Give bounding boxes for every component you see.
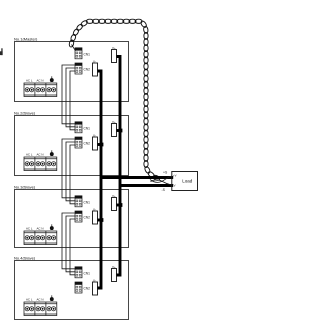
svg-text:AC L: AC L xyxy=(26,79,33,83)
connector CN1 unit 2 xyxy=(75,122,90,133)
connector CN2 unit 3 xyxy=(75,211,90,222)
connector CN1 unit 1 xyxy=(75,48,90,59)
power supply unit No.4(Slave) enclosure xyxy=(15,261,129,320)
output terminal V+ unit 1 xyxy=(112,46,117,63)
PE ground symbol unit 2 xyxy=(50,150,53,155)
svg-text:CN1: CN1 xyxy=(84,52,91,56)
twisted-pair sense cable (chain links) from CN1 unit1 to load xyxy=(69,19,161,181)
junction dot V+ unit 3 xyxy=(119,203,123,207)
AC input terminal block unit 3 xyxy=(24,231,57,245)
power supply unit No.3(Slave) enclosure xyxy=(15,190,129,248)
daisy-chain wires CN2 unit 3 to CN1 unit 4 xyxy=(62,213,75,275)
svg-text:AC L: AC L xyxy=(26,298,33,302)
V+ stub unit 3 xyxy=(117,204,121,207)
AC input terminal block unit 2 xyxy=(24,157,57,171)
svg-text:CN1: CN1 xyxy=(84,200,91,204)
svg-text:CN2: CN2 xyxy=(84,287,91,291)
svg-text:AC N: AC N xyxy=(37,227,44,231)
svg-text:CN2: CN2 xyxy=(84,142,91,146)
output terminal V- unit 2 xyxy=(93,133,98,150)
connector CN2 unit 4 xyxy=(75,282,90,293)
connector CN2 unit 1 xyxy=(75,63,90,74)
V- stub unit 2 xyxy=(98,143,102,146)
svg-text:AC N: AC N xyxy=(37,298,44,302)
svg-text:No.1(Master): No.1(Master) xyxy=(14,36,38,41)
connector CN1 unit 3 xyxy=(75,196,90,207)
junction dot V+ unit 2 xyxy=(119,129,123,133)
svg-text:CN2: CN2 xyxy=(84,68,91,72)
svg-text:CN1: CN1 xyxy=(84,271,91,275)
output terminal V+ unit 4 xyxy=(112,265,117,282)
svg-text:Load: Load xyxy=(182,178,193,183)
thick wire V- bus to load top terminal xyxy=(101,176,174,179)
daisy-chain wires CN2 unit 1 to CN1 unit 2 xyxy=(62,65,75,130)
PE ground symbol unit 1 xyxy=(50,76,53,81)
V- stub unit 3 xyxy=(98,219,102,222)
junction dot V- unit 2 xyxy=(100,143,104,147)
thick line stub into load top terminal xyxy=(172,176,173,179)
sense wire to -V terminal (twisted) xyxy=(151,180,172,185)
svg-text:AC L: AC L xyxy=(26,153,33,157)
output terminal V+ unit 2 xyxy=(112,120,117,137)
svg-text:CN2: CN2 xyxy=(84,216,91,220)
svg-text:AC L: AC L xyxy=(26,227,33,231)
connector CN1 unit 4 xyxy=(75,267,90,278)
clipped text fragment at left edge xyxy=(0,48,3,55)
thick line stub into load bottom terminal xyxy=(172,184,173,187)
load box xyxy=(172,172,198,191)
daisy-chain wires CN2 unit 2 to CN1 unit 3 xyxy=(62,139,75,204)
svg-text:AC N: AC N xyxy=(37,153,44,157)
svg-text:V: V xyxy=(174,183,176,187)
PE ground symbol unit 3 xyxy=(50,224,53,229)
output terminal V- unit 1 xyxy=(93,59,98,76)
thick wire V+ bus to load bottom terminal xyxy=(120,184,174,187)
svg-text:AC N: AC N xyxy=(37,79,44,83)
svg-text:+V: +V xyxy=(173,173,177,177)
V+ stub unit 2 xyxy=(117,129,121,132)
wire from chain to CN1 unit 1 xyxy=(72,45,76,51)
power supply unit No.2(Slave) enclosure xyxy=(15,116,129,176)
junction dot V- unit 3 xyxy=(100,218,104,222)
svg-text:No.3(Slave): No.3(Slave) xyxy=(14,184,36,189)
V+ bus bar vertical xyxy=(117,57,121,276)
V- bus bar vertical xyxy=(98,71,102,288)
sense wire to +V terminal (twisted) xyxy=(150,176,172,182)
power supply unit No.1(Master) enclosure xyxy=(15,42,129,102)
output terminal V+ unit 3 xyxy=(112,194,117,211)
PE ground symbol unit 4 xyxy=(50,295,53,300)
AC input terminal block unit 1 xyxy=(24,83,57,97)
connector CN2 unit 2 xyxy=(75,137,90,148)
svg-text:+S: +S xyxy=(163,171,168,175)
AC input terminal block unit 4 xyxy=(24,302,57,316)
output terminal V- unit 3 xyxy=(93,207,98,224)
svg-text:No.4(Slave): No.4(Slave) xyxy=(14,255,36,260)
output terminal V- unit 4 xyxy=(93,278,98,295)
svg-text:No.2(Slave): No.2(Slave) xyxy=(14,110,36,115)
svg-text:CN1: CN1 xyxy=(84,126,91,130)
